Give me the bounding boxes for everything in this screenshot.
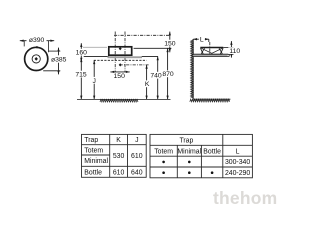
dimension ø385 top arrow — [57, 48, 59, 52]
svg-text:K: K — [145, 81, 150, 88]
dimension 160 top arrow — [80, 43, 82, 47]
dimension L right arrow — [205, 38, 209, 40]
side view drain centerline — [209, 42, 211, 55]
front view counter line left — [84, 56, 109, 58]
svg-text:L: L — [236, 148, 240, 155]
dimension L right elbow — [208, 39, 210, 42]
side view wall line — [192, 39, 194, 99]
dimension 715 top arrow — [80, 58, 82, 62]
svg-text:Totem: Totem — [84, 147, 103, 154]
dimension 150 top lower arrow — [169, 49, 171, 53]
side view floor hatch — [190, 99, 230, 102]
svg-text:530: 530 — [113, 153, 125, 160]
side view counter right cap — [228, 54, 230, 56]
dimension J top arrow — [93, 60, 95, 64]
side view bowl outline — [201, 48, 224, 54]
dimension 715 line — [80, 58, 82, 99]
dimension ø390 right extension line — [47, 41, 49, 53]
dimension 740 top arrow — [157, 56, 159, 60]
svg-text:610: 610 — [131, 153, 143, 160]
side view counter extension line — [229, 53, 233, 55]
svg-text:110: 110 — [229, 48, 240, 55]
white backgrounds for dimension texts — [27, 35, 242, 87]
front view counter slab gray bar — [108, 56, 143, 58]
dimension ø390 line — [20, 40, 54, 42]
dimension 740 line — [157, 56, 159, 99]
svg-text:150: 150 — [164, 41, 176, 48]
front view basin center diamond — [119, 47, 122, 50]
svg-text:240-290: 240-290 — [225, 170, 250, 177]
dimension 870 bottom arrow — [166, 96, 168, 100]
svg-text:640: 640 — [131, 169, 143, 176]
center diamond of circle view — [35, 57, 38, 61]
svg-text:J: J — [135, 137, 138, 144]
dimension ø390 left arrow — [20, 40, 24, 42]
svg-text:Totem: Totem — [154, 148, 173, 155]
svg-text:K: K — [116, 137, 121, 144]
svg-text:ø390: ø390 — [29, 37, 45, 44]
svg-text:thehome: thehome — [213, 188, 278, 208]
front view drain centerline horizontal — [120, 64, 149, 66]
dot minimal row4 — [188, 171, 191, 174]
dimension 740 bottom arrow — [157, 96, 159, 100]
dimension J line — [93, 60, 95, 99]
dimension 150 top line — [169, 32, 171, 53]
dimension J bottom arrow — [93, 96, 95, 100]
dimension 110 line — [230, 41, 232, 58]
dimension 110 top arrow — [230, 41, 232, 45]
dimension L left arrow — [193, 38, 197, 40]
side view bowl rim — [200, 47, 223, 49]
left table — [82, 134, 147, 177]
dimension 160 line — [80, 43, 82, 61]
side view counter gray bar — [193, 55, 228, 57]
svg-text:Trap: Trap — [179, 138, 193, 145]
dimension 110 bottom arrow — [230, 54, 232, 58]
front view supply centerline B — [124, 32, 126, 72]
front view drain diamond — [119, 63, 122, 66]
dimension 870 top arrow — [166, 48, 168, 52]
dot totem row3 — [162, 161, 165, 164]
dimension 160 bottom arrow — [80, 58, 82, 62]
svg-text:300-340: 300-340 — [225, 159, 250, 166]
dimension 150 bottom right arrow — [126, 71, 130, 73]
svg-text:610: 610 — [113, 169, 125, 176]
side view counter bottom line — [193, 56, 229, 58]
front view hidden dashed line — [94, 59, 147, 61]
dot totem row4 — [162, 171, 165, 174]
dimension K top arrow — [145, 65, 147, 69]
front view floor hatch — [100, 99, 138, 102]
dimension L line — [193, 38, 209, 40]
dimension ø390 left extension line — [23, 41, 25, 47]
right table — [150, 134, 252, 177]
basin top view inner drain circle — [32, 55, 40, 63]
svg-text:150: 150 — [114, 73, 126, 80]
dot minimal row3 — [188, 161, 191, 164]
front view floor line — [77, 98, 171, 100]
dimension 870 line — [167, 48, 169, 99]
dimension ø390 right arrow — [50, 40, 54, 42]
svg-text:870: 870 — [162, 71, 174, 78]
dimension K line — [146, 65, 148, 100]
svg-text:ø385: ø385 — [51, 57, 67, 64]
dimension ø385 bottom extension line — [43, 70, 60, 72]
svg-text:Minimal: Minimal — [84, 158, 108, 165]
dimension K bottom arrow — [145, 96, 147, 100]
front view counter line right — [142, 55, 158, 57]
svg-text:Bottle: Bottle — [84, 169, 102, 176]
svg-text:Minimal: Minimal — [177, 148, 201, 155]
front view tap centerline horizontal — [114, 34, 170, 36]
svg-text:740: 740 — [150, 73, 162, 80]
svg-text:J: J — [92, 78, 95, 85]
front view rim extension line left gray — [83, 46, 107, 48]
dimension 150 bottom line — [110, 71, 129, 73]
dimension ø385 top extension line — [49, 50, 61, 52]
dimension ø385 line — [58, 48, 60, 75]
side view rim extension line — [223, 46, 233, 48]
svg-text:160: 160 — [76, 50, 88, 57]
front view basin rectangle — [109, 47, 132, 55]
dimension 715 bottom arrow — [80, 96, 82, 100]
side view wall hatch — [191, 40, 193, 98]
tap hole marker on rim — [36, 46, 38, 48]
dot bottle row4 — [211, 171, 214, 174]
svg-text:715: 715 — [75, 72, 87, 79]
dimension texts — [29, 37, 241, 88]
svg-text:Bottle: Bottle — [203, 148, 221, 155]
side view floor line — [193, 98, 230, 100]
side view bowl interior — [201, 48, 222, 54]
dimension ø385 bottom arrow — [57, 71, 59, 75]
svg-text:L: L — [200, 37, 204, 44]
dimension 150 top upper arrow — [169, 32, 171, 36]
front view rim extension line right — [134, 47, 172, 49]
side view counter top line — [193, 53, 229, 55]
svg-text:Trap: Trap — [84, 137, 98, 144]
dimension 150 bottom left arrow — [110, 71, 114, 73]
front view supply centerline A — [114, 32, 116, 72]
basin top view outer circle ø390 — [25, 47, 48, 70]
